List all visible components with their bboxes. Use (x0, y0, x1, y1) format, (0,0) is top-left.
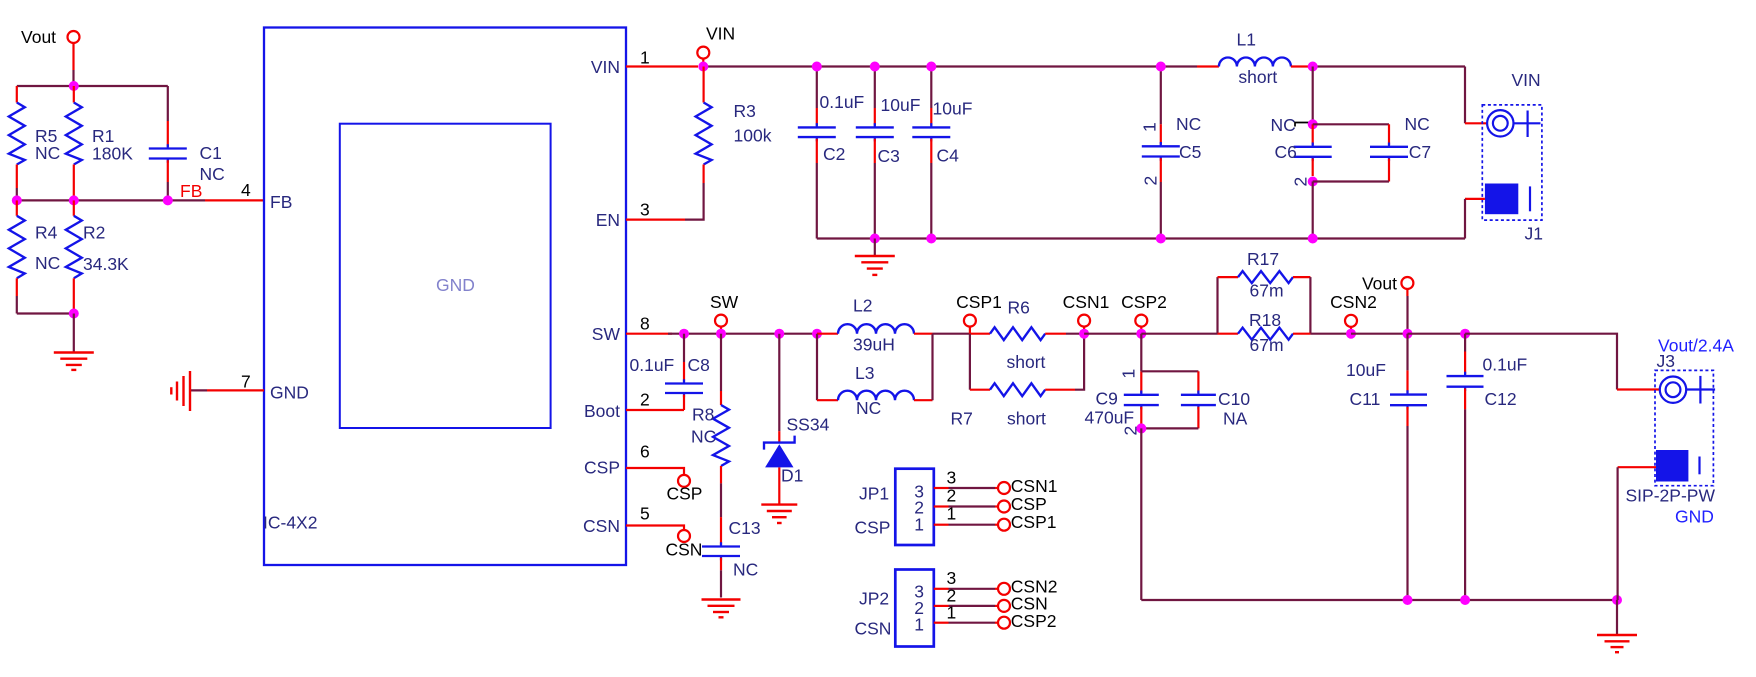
capacitor C13 (702, 518, 761, 598)
svg-text:1: 1 (914, 615, 924, 635)
node CSP2 terminal (1121, 292, 1167, 330)
svg-text:CSN: CSN (583, 516, 620, 536)
capacitor C12 (1447, 334, 1528, 600)
svg-text:Boot: Boot (584, 401, 620, 421)
op-amp U1 IC-4X2 body (263, 28, 626, 566)
svg-text:SW: SW (710, 292, 739, 312)
svg-text:C2: C2 (823, 144, 845, 164)
resistor R18 (in line) (1218, 310, 1352, 355)
node junction C6 bus (1308, 234, 1318, 244)
wire C9 bottom to output ground bus (1140, 428, 1142, 600)
svg-text:C10: C10 (1218, 389, 1250, 409)
svg-text:R3: R3 (734, 101, 756, 121)
wire top bus corner to J1 pin1 (1465, 67, 1487, 124)
svg-text:C8: C8 (688, 355, 710, 375)
svg-text:L2: L2 (853, 296, 872, 316)
wire VIN top bus (703, 65, 1197, 67)
svg-text:SW: SW (592, 324, 621, 344)
capacitor C8 (630, 334, 710, 410)
pin 1 of JP1 (934, 504, 999, 525)
svg-text:JP1: JP1 (859, 484, 889, 504)
svg-text:C1: C1 (200, 143, 222, 163)
svg-text:3: 3 (947, 468, 957, 488)
svg-text:4: 4 (241, 180, 251, 200)
svg-text:1: 1 (1140, 122, 1160, 132)
node junction CSN2 (1346, 329, 1356, 339)
svg-text:3: 3 (640, 200, 650, 220)
resistor R4 (9, 200, 60, 313)
node CSN2 terminal (JP2-3) (998, 577, 1057, 597)
svg-text:short: short (1007, 409, 1046, 429)
svg-text:SIP-2P-PW: SIP-2P-PW (1626, 486, 1716, 506)
svg-text:NA: NA (1223, 409, 1248, 429)
capacitor C6 (1275, 124, 1332, 186)
ground (divider) (54, 314, 94, 370)
diode D1 SS34 (schottky) (764, 334, 830, 505)
ground (D1) (761, 505, 797, 523)
node junction FB row mid (69, 195, 79, 205)
node junction C12 bottom (1460, 595, 1470, 605)
svg-text:FB: FB (180, 181, 202, 201)
node SW terminal (710, 292, 739, 330)
wire CSP2 to R17/R18 (1141, 333, 1217, 335)
wire C6 bottom to bus (1312, 182, 1314, 239)
capacitor C7 (1313, 114, 1431, 182)
node junction C8 (679, 329, 689, 339)
svg-text:J3: J3 (1657, 351, 1675, 371)
resistor R5 (9, 86, 60, 200)
svg-text:R7: R7 (951, 409, 973, 429)
svg-text:180K: 180K (92, 144, 133, 164)
wire bottom row divider (17, 312, 74, 314)
node junction top row (69, 81, 79, 91)
svg-text:R4: R4 (35, 223, 58, 243)
node GND plane box inside IC (340, 124, 551, 428)
node CSP terminal (JP1-2) (998, 494, 1047, 514)
node junction C11 bottom (1403, 595, 1413, 605)
svg-text:NC: NC (35, 143, 60, 163)
wire Vout terminal to top row (72, 43, 74, 86)
svg-text:R2: R2 (83, 223, 105, 243)
node junction D1 (774, 329, 784, 339)
pin VIN 1 of U1 (591, 48, 698, 78)
svg-text:CSP: CSP (667, 484, 703, 504)
svg-text:short: short (1238, 67, 1277, 87)
svg-text:short: short (1007, 352, 1046, 372)
node CSN2 terminal (1330, 292, 1377, 330)
svg-text:CSP2: CSP2 (1121, 292, 1167, 312)
node junction SW terminal (716, 329, 726, 339)
svg-text:39uH: 39uH (853, 335, 895, 355)
svg-text:CSP1: CSP1 (956, 292, 1002, 312)
inductor L2 (817, 296, 933, 355)
wire top row y=86 (17, 85, 168, 87)
svg-text:L3: L3 (855, 363, 874, 383)
svg-text:CSP2: CSP2 (1011, 611, 1057, 631)
svg-text:Vout: Vout (1362, 274, 1397, 294)
svg-text:NC: NC (691, 427, 716, 447)
svg-text:5: 5 (640, 504, 650, 524)
resistor R2 (66, 200, 129, 313)
connector J1 (1482, 70, 1543, 244)
svg-text:1: 1 (914, 514, 924, 534)
svg-text:10uF: 10uF (1346, 360, 1386, 380)
pin CSP 6 of U1 (584, 442, 684, 478)
resistor R8 (691, 334, 729, 545)
connector J3 SIP-2P-PW (1626, 336, 1735, 527)
node junction VIN pin (698, 62, 708, 72)
capacitor C10 NA (parallel) (1141, 371, 1250, 428)
svg-text:VIN: VIN (591, 57, 620, 77)
pin Boot 2 of U1 (584, 390, 684, 422)
pin CSN 5 of U1 (583, 504, 684, 537)
svg-text:C11: C11 (1350, 389, 1381, 409)
svg-text:2: 2 (947, 486, 957, 506)
node junction C5 bottom (1156, 234, 1166, 244)
node junction C6 bottom (1308, 177, 1318, 187)
svg-text:NC: NC (200, 164, 225, 184)
svg-text:CSP: CSP (855, 518, 891, 538)
svg-text:CSP: CSP (1011, 494, 1047, 514)
wire CSN2 to Vout (1351, 333, 1408, 335)
node junction C5 top (1156, 62, 1166, 72)
svg-text:34.3K: 34.3K (83, 254, 129, 274)
svg-text:0.1uF: 0.1uF (820, 92, 865, 112)
pin EN 3 of U1 (596, 183, 704, 230)
svg-text:10uF: 10uF (933, 99, 973, 119)
svg-text:IC-4X2: IC-4X2 (263, 513, 317, 533)
resistor R17 (top branch) (1218, 249, 1311, 334)
node junction FB row C1 (163, 195, 173, 205)
svg-text:CSN1: CSN1 (1063, 292, 1110, 312)
wire SW rail (668, 333, 817, 335)
svg-text:NC: NC (35, 253, 60, 273)
wire Vout rail to J3 pin1 (1465, 334, 1660, 390)
node junction FB row left (12, 195, 22, 205)
pin SW 8 of U1 (592, 314, 672, 345)
inductor L1 (1197, 30, 1313, 88)
svg-text:1: 1 (640, 48, 650, 68)
resistor R7 (parallel, short) (951, 334, 1085, 429)
node CSN1 terminal (JP1-3) (998, 476, 1057, 496)
node junction CSP2 (1136, 329, 1146, 339)
svg-text:67m: 67m (1250, 281, 1284, 301)
node CSP1 terminal (JP1-1) (998, 512, 1057, 532)
svg-text:Vout: Vout (21, 27, 56, 47)
node CSP terminal (667, 475, 703, 504)
svg-text:C7: C7 (1409, 142, 1431, 162)
node junction C4 top (926, 62, 936, 72)
wire FB row y=200.4 (17, 199, 264, 201)
wire J3 pin2 to ground bus (1618, 467, 1656, 600)
svg-text:R18: R18 (1249, 310, 1281, 330)
pin 2 of JP1 (934, 486, 999, 507)
node junction C3 top (870, 62, 880, 72)
pin GND 7 of U1 (191, 372, 309, 403)
pin 3 of JP2 (934, 568, 999, 589)
ground (C13) (702, 600, 741, 618)
svg-text:C9: C9 (1096, 389, 1118, 409)
svg-text:R17: R17 (1247, 249, 1279, 269)
node CSP2 terminal (JP2-1) (998, 611, 1057, 631)
node CSN terminal (JP2-2) (998, 594, 1048, 614)
svg-text:C3: C3 (878, 146, 900, 166)
svg-text:C4: C4 (937, 146, 960, 166)
capacitor C2 (798, 67, 864, 239)
svg-text:EN: EN (596, 210, 620, 230)
node CSN terminal (666, 530, 703, 560)
wire output ground bus (1141, 599, 1617, 601)
pin 1 of J3 (ring with plus) (1660, 376, 1715, 404)
connector JP1 (855, 469, 934, 545)
pin 2 of JP2 (934, 586, 999, 606)
capacitor C11 (1346, 334, 1427, 600)
capacitor C5 (1140, 67, 1202, 239)
svg-text:GND: GND (270, 383, 309, 403)
node junction L1 right (1308, 62, 1318, 72)
svg-text:2: 2 (640, 390, 650, 410)
capacitor C1 (149, 86, 225, 200)
svg-text:CSN2: CSN2 (1330, 292, 1377, 312)
node junction C9 bottom (1136, 423, 1146, 433)
node NC label C6 (1271, 115, 1309, 135)
node junction C6 top (1308, 119, 1318, 129)
node Vout terminal (output) (1362, 274, 1413, 334)
wire bottom bus (input caps) (817, 237, 1465, 239)
pin 2 of J1 (square pad) (1485, 184, 1530, 215)
pin 1 of J1 (ring with plus) (1487, 110, 1540, 137)
resistor R6 (970, 298, 1084, 373)
ground (GND pin, rotated) (171, 371, 190, 411)
svg-text:JP2: JP2 (859, 589, 889, 609)
svg-text:C5: C5 (1179, 142, 1201, 162)
svg-text:7: 7 (241, 372, 251, 392)
svg-text:NC: NC (1176, 114, 1201, 134)
capacitor C3 (856, 67, 921, 239)
node junction C4 bottom (926, 234, 936, 244)
svg-text:C13: C13 (729, 518, 761, 538)
svg-text:NC: NC (856, 398, 881, 418)
ground (output) (1597, 600, 1637, 652)
svg-text:1: 1 (947, 504, 957, 524)
node junction bottom row (69, 309, 79, 319)
svg-text:100k: 100k (734, 126, 772, 146)
svg-text:1: 1 (947, 603, 957, 623)
inductor L3 (parallel, NC) (817, 334, 933, 418)
svg-text:0.1uF: 0.1uF (630, 355, 675, 375)
node VIN terminal (697, 24, 735, 63)
svg-text:C12: C12 (1485, 389, 1517, 409)
ground (input bus) (855, 239, 895, 275)
capacitor C4 (912, 67, 972, 239)
node junction C12 top (1460, 329, 1470, 339)
wire CSN1 to CSP2 (1084, 333, 1141, 335)
node junction C3 bottom (870, 234, 880, 244)
svg-text:CSN1: CSN1 (1011, 476, 1058, 496)
svg-text:C6: C6 (1275, 142, 1297, 162)
pin 1 of JP2 (934, 603, 999, 623)
svg-text:GND: GND (1675, 507, 1714, 527)
svg-text:10uF: 10uF (881, 95, 921, 115)
node junction ground bus right (1612, 595, 1622, 605)
node junction C2 top (812, 62, 822, 72)
node CSP1 terminal (956, 292, 1002, 334)
svg-text:2: 2 (1291, 177, 1311, 187)
svg-text:470uF: 470uF (1085, 408, 1135, 428)
pin 2 of J3 (square pad) (1656, 450, 1700, 482)
wire J1 pin2 to bottom bus (1465, 199, 1485, 239)
svg-text:R6: R6 (1008, 298, 1030, 318)
svg-text:J1: J1 (1525, 224, 1543, 244)
svg-text:VIN: VIN (1512, 70, 1541, 90)
svg-text:GND: GND (436, 275, 475, 295)
wire C6 node branch (1312, 67, 1314, 125)
node junction Vout (1403, 329, 1413, 339)
svg-text:8: 8 (640, 314, 650, 334)
node Vout (top-left terminal) (21, 27, 80, 47)
svg-text:0.1uF: 0.1uF (1483, 355, 1528, 375)
svg-text:2: 2 (1141, 176, 1161, 186)
svg-text:NC: NC (1405, 114, 1430, 134)
connector JP2 (855, 570, 934, 647)
wire top bus right of L1 (1313, 65, 1465, 67)
svg-text:VIN: VIN (706, 24, 735, 44)
svg-text:D1: D1 (781, 466, 803, 486)
svg-text:CSP1: CSP1 (1011, 512, 1057, 532)
svg-text:6: 6 (640, 442, 650, 462)
wire Vout rail to C12 (1408, 333, 1466, 335)
node junction CSN1 (1079, 329, 1089, 339)
resistor R1 (66, 86, 133, 196)
svg-text:NC: NC (1271, 115, 1296, 135)
node junction L2 left (812, 329, 822, 339)
svg-text:NC: NC (733, 560, 758, 580)
svg-text:67m: 67m (1250, 335, 1284, 355)
wire SW rail L2 to CSP1 (933, 333, 970, 335)
svg-text:CSP: CSP (584, 458, 620, 478)
capacitor C9 470uF (1085, 334, 1159, 436)
node CSN1 terminal (1063, 292, 1110, 330)
svg-text:CSN: CSN (855, 619, 892, 639)
svg-text:L1: L1 (1237, 30, 1256, 50)
svg-text:CSN: CSN (666, 540, 703, 560)
svg-text:SS34: SS34 (787, 415, 830, 435)
svg-text:R8: R8 (692, 405, 714, 425)
resistor R3 (696, 67, 772, 184)
svg-text:1: 1 (1119, 369, 1139, 379)
svg-text:FB: FB (270, 192, 292, 212)
pin 3 of JP1 (934, 468, 999, 489)
